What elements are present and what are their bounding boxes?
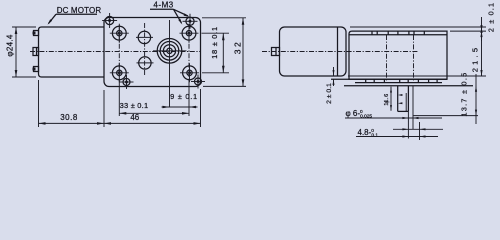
motor end cap line (side view) (337, 27, 339, 76)
svg-text:18 ± 0.1: 18 ± 0.1 (210, 26, 219, 59)
gear hole upper middle (138, 31, 150, 43)
gearbox bottom edge (331, 78, 447, 80)
dimension 13.7 +/-0.5 face to shaft tip (475, 74, 477, 124)
svg-text:32: 32 (233, 40, 243, 54)
hole bottom-left small (123, 79, 130, 86)
motor terminal bottom-left (34, 67, 39, 72)
extension gearbox top to right (450, 30, 486, 32)
svg-text:46: 46 (130, 113, 139, 122)
hole M3 top-left (106, 16, 114, 24)
output shaft (side view) (397, 86, 399, 112)
dimension 9 +/-0.1 shaft offset (162, 106, 198, 108)
counterbore hole bottom-left (112, 66, 126, 80)
bottom flange line (355, 82, 442, 84)
side view: motor cylinder (280, 27, 347, 76)
svg-text:2 ± 0.1: 2 ± 0.1 (326, 83, 333, 104)
mounting face line (344, 85, 473, 87)
hole M3 top-right (186, 17, 194, 25)
gearbox face plate 46x32 (104, 18, 201, 87)
motor rear nub (side view) (272, 48, 280, 56)
dimension line phi6 row (393, 128, 443, 130)
hole bottom-right small (195, 78, 202, 85)
hub centerlines (153, 50, 187, 52)
svg-text:11.6: 11.6 (384, 93, 390, 105)
gear hole lower middle (139, 57, 151, 69)
svg-text:30.8: 30.8 (60, 113, 78, 122)
dimension 46 plate width (103, 90, 105, 127)
vertical centerline right hole column (188, 25, 190, 80)
motor centerline (front view) (30, 51, 200, 53)
gearbox top flange line (349, 34, 447, 36)
extension line x413 (412, 86, 414, 130)
counterbore hole top-left (112, 26, 126, 40)
dimension 32 plate height (202, 17, 246, 19)
screw boss ticks on bottom flange (365, 79, 367, 82)
dimension 30.8 motor length (38, 80, 40, 127)
hidden gear centerline 1 (386, 35, 388, 83)
extension for 13.7 at shaft tip (414, 115, 479, 117)
dimension 33 +/-0.1 hole spacing (118, 80, 120, 116)
svg-text:φ24.4: φ24.4 (6, 34, 15, 57)
vertical centerline left hole column (118, 25, 120, 80)
dimension 2 +/-0.1 left of shaft (333, 67, 335, 76)
svg-text:13.7 ± 0.5: 13.7 ± 0.5 (460, 72, 469, 117)
extension line x419.5 (419, 122, 421, 140)
vertical centerline through gear holes (144, 23, 146, 76)
svg-text:4-M3: 4-M3 (153, 1, 173, 10)
gearbox housing (side view) (349, 31, 447, 79)
motor rear shaft nub (33, 48, 39, 56)
dimension 21.5 motor height right (481, 31, 483, 76)
small arrows on shaft left side (398, 94, 403, 96)
dimension 18 +/-0.1 vertical hole spacing (202, 32, 230, 34)
front view: motor body behind gearbox plate (39, 27, 105, 77)
dimension 2 +/-0.1 top right (481, 17, 483, 41)
shaft length dimension 11.6 (390, 87, 392, 111)
hidden gear centerline 2 (413, 35, 415, 83)
motor terminal top-left (34, 31, 39, 36)
svg-text:2 ± 0.1: 2 ± 0.1 (487, 2, 496, 32)
dimension phi 24.4 motor diameter (12, 26, 36, 28)
svg-text:33 ± 0.1: 33 ± 0.1 (120, 101, 149, 110)
extension motor bottom to right (348, 75, 486, 77)
motor axis centerline (side view) (262, 51, 418, 53)
counterbore hole top-right (182, 26, 196, 40)
screw boss ticks on top flange (371, 31, 373, 35)
counterbore hole bottom-right (183, 66, 197, 80)
shaft D-flat line (405, 93, 407, 111)
output shaft hub concentric circles (157, 39, 182, 64)
svg-text:9 ± 0.1: 9 ± 0.1 (170, 92, 198, 101)
svg-text:21.5: 21.5 (471, 45, 480, 72)
extension motor top to right (350, 26, 486, 28)
extension line shaft right extended (407, 111, 409, 138)
